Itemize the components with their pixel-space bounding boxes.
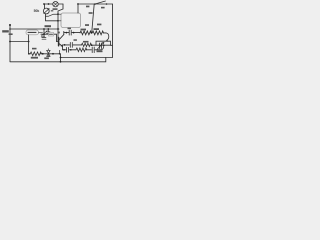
resistor R4 (92, 31, 103, 35)
wire bridge over trimmer (96, 41, 111, 45)
wire rising arc to row D (101, 45, 104, 50)
potentiometer R1 (43, 8, 49, 14)
junction node row D left (64, 44, 66, 46)
transistor Q1 base bar (58, 38, 60, 46)
junction node collector row (66, 32, 68, 34)
battery box GB1 outline (61, 13, 81, 28)
switch S1 blade (95, 1, 106, 4)
wire after R5 (86, 49, 91, 51)
wire row D to right vertical (111, 44, 113, 46)
junction node after C3 (73, 32, 75, 34)
label right of R1 (51, 10, 54, 11)
junction node at tick (59, 53, 61, 55)
svg-text:50k: 50k (34, 9, 40, 13)
value label R4 (94, 28, 100, 30)
junction node detector row (43, 33, 45, 35)
wire emitter row segment (63, 49, 67, 51)
junction node row D at trimmer (103, 44, 105, 46)
label right of switch S1 (101, 7, 105, 9)
capacitor C2 (47, 29, 50, 34)
label under lamp HL1 (53, 8, 58, 10)
label left of switch S1 (86, 6, 89, 8)
diode D1 box (49, 32, 54, 36)
resistor R2 (30, 52, 41, 56)
wire emitter row segment 2 (69, 49, 76, 51)
junction node on base column y21 (57, 20, 59, 22)
wire main bus (10, 28, 59, 30)
transistor Q1 emitter lead with arrow (59, 44, 63, 47)
capacitor C4 (70, 42, 72, 47)
junction node B on rail (48, 3, 50, 5)
wire collector row segment 2 (72, 32, 80, 34)
wire coil L1 right lead (39, 31, 43, 33)
wire detector row to transistor base (41, 34, 57, 41)
terminal node antenna input (9, 24, 11, 26)
resistor R3 (80, 31, 91, 35)
switch S1 contact left (94, 3, 96, 5)
wire row D right segment (91, 44, 111, 46)
wire after R4 (103, 32, 106, 34)
junction node on base column y14 (57, 13, 59, 15)
wire potentiometer bottom lead (46, 14, 59, 21)
coil L1 oval body (26, 30, 39, 35)
junction node after C7 (70, 49, 72, 51)
wire top-right rail (78, 3, 113, 5)
junction node after crystal (52, 53, 54, 55)
junction node bus left end (9, 28, 11, 30)
transistor Q1 base lead (57, 41, 59, 43)
crystal earphone BF1 (47, 49, 51, 57)
junction node at coil column corner (28, 53, 30, 55)
wire collector row segment (64, 32, 69, 34)
wire coil column down to bottom row (29, 35, 31, 54)
wire right vertical and mid-bottom return (61, 4, 113, 58)
value label C2 (45, 25, 52, 27)
wire tick above bottom row (59, 50, 61, 54)
junction node on base column at bus (57, 28, 59, 30)
wire after C5 (95, 49, 101, 51)
lamp HL1 (53, 1, 58, 6)
transistor Q1 collector lead (59, 35, 64, 40)
junction node after R2 (42, 53, 44, 55)
junction node emitter row (63, 49, 65, 51)
wire bottom row to corner (40, 54, 60, 62)
variable capacitor C1 (41, 29, 47, 39)
junction node C2 top on bus (47, 28, 49, 30)
label left of D1 (42, 36, 45, 38)
label coil L1 (9, 33, 13, 35)
wire bottom return (10, 58, 106, 62)
polarity label plus (58, 32, 60, 34)
wire collector stub (63, 31, 65, 34)
junction node corner at mid return (60, 57, 62, 59)
designator label R4 (97, 24, 101, 26)
junction node corner at bottom return (60, 61, 62, 63)
junction node rung left (9, 41, 11, 43)
wire emitter junction vertical (62, 45, 64, 50)
value label R2 (31, 57, 38, 59)
designator label R3 (85, 24, 89, 26)
wire row D middle segment (73, 44, 81, 46)
capacitor C5 (92, 47, 94, 53)
junction node rung right (28, 41, 30, 43)
label on switch drop wire (89, 12, 93, 14)
wire stubs into battery box (58, 14, 61, 21)
wire rung between left verticals (10, 41, 29, 43)
wire potentiometer top lead (44, 4, 46, 8)
wire top-left rail (44, 3, 63, 5)
trimmer capacitor C6 (97, 42, 104, 49)
wire from rail corner down to base column (58, 4, 63, 42)
wire battery plus drop (77, 4, 79, 13)
wire row D left segment (63, 44, 70, 46)
label below crystal earphone (44, 57, 49, 59)
label below trimmer C6 (97, 50, 103, 52)
junction node between R3 and R4 (91, 32, 93, 34)
wire from switch node down to resistor junction (92, 4, 95, 33)
switch S2 blade on potentiometer (46, 14, 59, 16)
designator label R2 (32, 48, 37, 50)
label above C3 (68, 28, 72, 30)
junction node C1 top on bus (43, 28, 45, 30)
wire left vertical (9, 25, 11, 62)
resistor R5 (76, 48, 87, 52)
label antenna input (2, 30, 9, 32)
capacitor C3 (69, 30, 71, 35)
switch S1 contact right (106, 3, 108, 5)
feedback hook wire with arrow (106, 33, 109, 42)
value label R6 (83, 41, 89, 43)
resistor R6 (82, 43, 92, 46)
value label R3 (81, 29, 87, 31)
capacitor C7 (67, 47, 69, 52)
label above C4 (74, 39, 77, 41)
junction node A top-left (43, 3, 45, 5)
junction node row D at C5 (91, 44, 93, 46)
junction node battery plus (77, 3, 79, 5)
